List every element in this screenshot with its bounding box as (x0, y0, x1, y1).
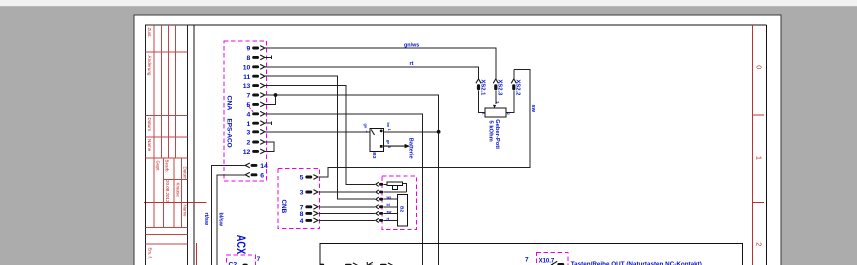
battery arrow (383, 145, 405, 147)
svg-text:X10.7: X10.7 (539, 258, 555, 264)
CNB pin 8 (300, 211, 318, 218)
window top light strip (0, 0, 857, 6)
B2 row1 connector (376, 182, 383, 186)
wire CNA14 down rt/sw (212, 165, 246, 265)
svg-text:8: 8 (247, 55, 251, 62)
svg-text:B3: B3 (371, 152, 377, 158)
bottom glyph K (367, 262, 373, 265)
B2 poti wiper tab (393, 186, 398, 190)
wire CNA5 jog to CNA7 (265, 95, 276, 104)
frame row tick left y202 (144, 202, 207, 204)
svg-text:Krause: Krause (175, 183, 180, 198)
device box bottom (320, 243, 742, 265)
CNA pin 3 (247, 129, 265, 136)
wire XS2.2 drop to plug (513, 69, 515, 79)
frame inner right border black (765, 25, 767, 265)
CNA pin 6 (245, 172, 264, 179)
B2 poti element top (387, 182, 403, 186)
CNB pin 3 (300, 190, 318, 197)
svg-text:13: 13 (243, 83, 251, 90)
terminal X10.7 box (536, 253, 568, 265)
CNB pin 7 (300, 204, 318, 211)
svg-text:7: 7 (257, 256, 261, 263)
svg-text:gn/ws: gn/ws (404, 42, 419, 48)
svg-text:10: 10 (243, 64, 251, 71)
svg-text:Name: Name (183, 205, 188, 218)
svg-text:4: 4 (247, 111, 251, 118)
bottom pin symbol 2 (380, 263, 393, 265)
CNA pin 13 (243, 83, 265, 90)
svg-text:5: 5 (300, 175, 304, 182)
svg-text:11: 11 (243, 74, 250, 81)
CNA pin 14 (245, 163, 268, 170)
B2 pin ws (376, 196, 391, 202)
B2 pin bl (376, 203, 390, 209)
wire XS2.3 wiper (495, 90, 497, 104)
wire XS2.2 to poti right (506, 90, 514, 112)
wire CNA3 to battery B3 (265, 131, 370, 133)
B2 pin rt (376, 217, 390, 223)
CNA pin 12 (243, 149, 265, 156)
svg-text:2: 2 (754, 242, 763, 246)
wire B3 output to junction (383, 131, 438, 133)
svg-text:12: 12 (243, 149, 251, 156)
connector CNA box (224, 41, 266, 181)
CNA pin 5 (247, 102, 265, 109)
svg-text:Ers. f.: Ers. f. (147, 248, 152, 259)
ACX partial pin symbol (243, 264, 248, 265)
svg-text:ACX: ACX (234, 235, 247, 255)
wire CNA13 to B2 top (265, 86, 375, 185)
svg-text:Datum: Datum (147, 118, 152, 132)
svg-text:5 kOhm: 5 kOhm (487, 121, 493, 142)
svg-text:rt: rt (410, 61, 414, 67)
svg-text:6: 6 (260, 172, 264, 179)
CNA pin 4 (247, 111, 265, 118)
B2 pin sw (376, 210, 392, 216)
potentiometer R body (485, 108, 506, 117)
B2 main body (398, 195, 408, 226)
bottom pin blob box left corner (320, 264, 325, 265)
B2 row2 connector to wiper (376, 190, 383, 194)
svg-text:Datum: Datum (183, 167, 188, 181)
poti wiper arrow (493, 105, 496, 108)
bottom pin symbol 1 (345, 263, 358, 265)
wire CNB8 to B2 (319, 212, 375, 214)
svg-text:Batterie: Batterie (408, 138, 414, 159)
B3 pin dot top-right (380, 130, 383, 133)
svg-text:1: 1 (754, 156, 763, 160)
CNA pin 8 (247, 55, 265, 62)
svg-text:1: 1 (482, 113, 486, 115)
CNA pin 1 (247, 121, 265, 128)
svg-text:Gepr.: Gepr. (155, 161, 160, 172)
svg-text:C2: C2 (229, 262, 238, 265)
CNB pin 5 (300, 175, 318, 182)
title block outer box (146, 25, 188, 265)
B3 pin square bottom-right (380, 145, 383, 148)
svg-text:sw: sw (530, 105, 536, 113)
svg-text:Zust.: Zust. (147, 28, 152, 38)
wire CNA11 to B2 ws (265, 76, 375, 199)
svg-text:Name: Name (147, 139, 152, 152)
wire CNA2 bracket to CNA12 (265, 142, 274, 151)
title block red horizontals top section (146, 52, 188, 158)
battery B3 body (370, 129, 384, 152)
svg-text:CNB: CNB (280, 200, 287, 214)
svg-text:Änderung: Änderung (147, 56, 153, 76)
svg-text:20.08.2012: 20.08.2012 (165, 180, 170, 203)
title block red verticals bottom section (154, 158, 181, 227)
svg-text:9: 9 (247, 46, 251, 53)
junction node B3 net (437, 130, 441, 134)
svg-text:8: 8 (300, 211, 304, 218)
svg-text:3: 3 (496, 101, 500, 103)
schematic page (134, 15, 781, 265)
svg-text:Geber-Poti: Geber-Poti (494, 119, 500, 149)
wire rt CNA10 to XS2.1 (265, 67, 479, 79)
svg-text:gn: gn (363, 124, 367, 129)
CNB pin 4 (300, 218, 318, 225)
plug XS2.2 (511, 79, 520, 95)
svg-text:Tasten/Reihe OUT (Naturtasten: Tasten/Reihe OUT (Naturtasten NC-Kontakt… (571, 261, 702, 265)
wire CNA6 down bl/sw (217, 175, 245, 265)
B2 elbow from poti right (403, 184, 407, 192)
wire CNB3 to B2 wiper (319, 191, 375, 193)
svg-text:4: 4 (300, 218, 304, 225)
CNA pin 10 (243, 64, 265, 71)
wire CNA7 long down right (265, 95, 439, 265)
frame row tick right y115 (753, 114, 764, 116)
wire CNA4 down (265, 114, 423, 265)
terminal X10.7 plug symbol (552, 261, 565, 265)
svg-text:XS2.1: XS2.1 (479, 80, 485, 97)
svg-text:CNA: CNA (225, 96, 232, 111)
svg-text:1: 1 (387, 129, 391, 131)
plug XS2.1 (476, 79, 485, 96)
wire XS2.1 to poti left (479, 90, 486, 112)
wire CNB4 to B2 (319, 219, 375, 221)
wire sw XS2.2 to CNB5 (319, 69, 530, 177)
sensor B2 box (382, 176, 416, 229)
title block red horizontals bottom section (146, 180, 188, 245)
svg-text:bl/sw: bl/sw (217, 213, 223, 227)
wire stub CNA1 (265, 121, 272, 125)
svg-text:XS2.3: XS2.3 (497, 80, 503, 97)
svg-text:Bearb.: Bearb. (164, 160, 169, 173)
plug XS2.3 (493, 79, 502, 96)
frame vertical divider (193, 25, 195, 265)
svg-text:14: 14 (260, 163, 268, 170)
svg-text:XS2.2: XS2.2 (515, 80, 521, 96)
svg-text:7: 7 (247, 93, 251, 100)
CNA pin bridge dashed diagonal pins 5-4 (247, 104, 255, 114)
svg-text:rt/sw: rt/sw (203, 213, 209, 226)
connector ACX box (227, 255, 256, 265)
frame red column tick bottom x196 (195, 243, 197, 265)
wire gn/ws CNA9 to XS2.3 (265, 48, 496, 79)
svg-text:7: 7 (525, 257, 529, 264)
svg-text:bn: bn (386, 123, 390, 128)
svg-text:EPS-ACO: EPS-ACO (225, 119, 232, 148)
CNA pin 11 (243, 74, 265, 81)
connector CNB box (278, 169, 320, 229)
title block red verticals top section (154, 25, 176, 158)
CNA pin 7 (247, 93, 265, 100)
svg-text:3: 3 (300, 190, 304, 197)
frame inner top line (146, 24, 767, 26)
CNA pin 2 (247, 140, 265, 147)
svg-text:2: 2 (506, 113, 510, 115)
wire stub CNA8 (265, 56, 272, 60)
svg-text:5: 5 (247, 102, 251, 109)
junction node CNA7/5 (274, 93, 278, 97)
svg-text:3: 3 (247, 129, 251, 136)
svg-text:ge: ge (386, 140, 390, 144)
frame red right border line (752, 25, 754, 265)
svg-text:2: 2 (247, 140, 251, 147)
frame row tick right y202 (753, 201, 764, 203)
svg-text:1: 1 (247, 121, 251, 128)
CNA pin 9 (247, 46, 265, 53)
svg-text:0: 0 (754, 65, 763, 69)
svg-text:B2: B2 (399, 206, 405, 212)
B3 pin tick top-left (371, 130, 374, 136)
wire CNB7 to B2 (319, 206, 375, 208)
